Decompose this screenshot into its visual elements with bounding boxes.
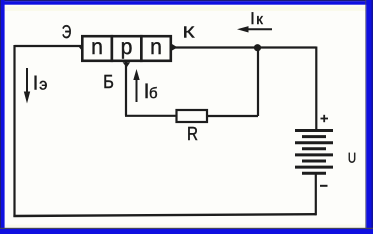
current arrow Iб (upward) (133, 69, 157, 103)
junction nub (emitter lead meets n box) (79, 44, 84, 52)
transistor VT (n-p-n structure, three boxes) (82, 34, 171, 61)
wire (base horizontal to resistor) (125, 115, 177, 117)
current arrow Iэ (downward) (24, 68, 48, 104)
resistor R (177, 110, 208, 122)
wire (bottom horizontal) (13, 214, 316, 216)
wire (resistor to riser) (207, 115, 259, 117)
battery + terminal label (321, 115, 329, 122)
wire (right vertical, top wire to battery +) (315, 47, 317, 131)
junction nub (collector lead meets n box) (172, 44, 178, 51)
wire (riser up to collector junction) (257, 48, 259, 117)
wire (battery - down to bottom wire) (315, 173, 317, 216)
battery U (multi-cell) (295, 131, 333, 174)
wire (collector lead, horizontal top) (172, 46, 316, 48)
battery - terminal label (320, 185, 328, 187)
current arrow Iк (leftward) (237, 9, 272, 33)
junction nub (base lead meets p box) (123, 62, 131, 67)
wire (left vertical) (13, 45, 15, 217)
wire (base vertical from p region) (125, 62, 127, 116)
wire (emitter lead, horizontal) (15, 45, 83, 47)
junction dot (collector node) (254, 44, 261, 51)
